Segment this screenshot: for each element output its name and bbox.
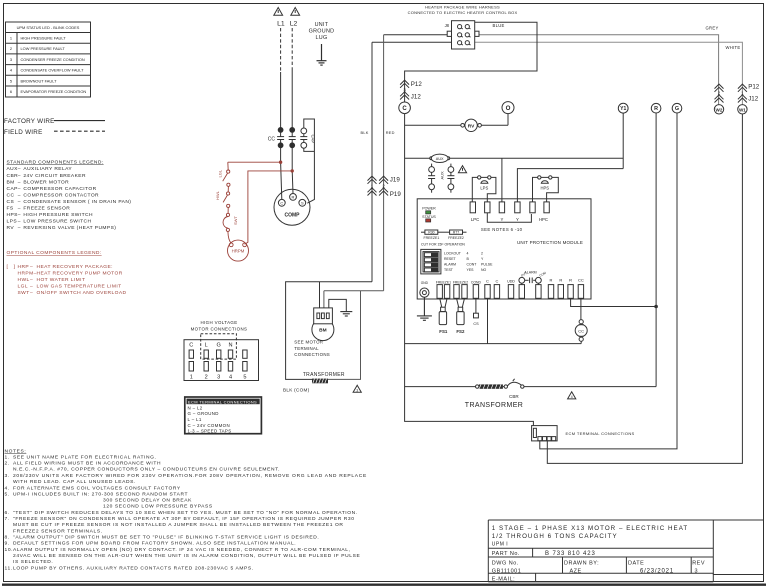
svg-text:CONT: CONT xyxy=(467,263,478,267)
svg-text:N – L2: N – L2 xyxy=(188,405,203,410)
UPM module box xyxy=(417,199,591,299)
UPM terminal HPC in xyxy=(530,202,535,213)
svg-text:6/23/2021: 6/23/2021 xyxy=(640,568,674,574)
svg-text:AUX: AUX xyxy=(440,171,445,180)
label HIGH VOLTAGE MOTOR CONNECTIONS xyxy=(191,320,248,331)
pressure switch HPS xyxy=(533,176,559,202)
svg-text:STANDARD COMPONENTS LEGEND:: STANDARD COMPONENTS LEGEND: xyxy=(7,159,104,165)
title block xyxy=(488,520,763,582)
svg-text:2: 2 xyxy=(481,252,483,256)
svg-text:CONDENSER FREEZE CONDITION: CONDENSER FREEZE CONDITION xyxy=(21,57,85,62)
wire Y branch to UPM Y in xyxy=(501,158,503,202)
warning triangle at L2 xyxy=(291,8,300,16)
svg-text:HPS: HPS xyxy=(7,212,19,218)
wire CAP lower stub xyxy=(304,148,315,151)
UPM bottom terminals row xyxy=(437,285,584,299)
svg-text:C: C xyxy=(402,106,407,112)
svg-text:L1: L1 xyxy=(277,21,285,28)
svg-text:–: – xyxy=(30,284,33,289)
svg-text:R: R xyxy=(550,277,553,282)
svg-text:1.: 1. xyxy=(5,454,10,460)
svg-text:ECM TERMINAL CONNECTIONS: ECM TERMINAL CONNECTIONS xyxy=(188,399,257,404)
connector BM plug xyxy=(314,308,333,324)
svg-text:TERMINAL: TERMINAL xyxy=(294,346,319,351)
svg-text:AUX: AUX xyxy=(436,157,444,161)
svg-text:FREEZE SENSOR: FREEZE SENSOR xyxy=(23,205,70,211)
svg-text:RED: RED xyxy=(386,130,395,135)
svg-text:HPC: HPC xyxy=(539,217,548,222)
svg-text:N: N xyxy=(228,342,232,348)
svg-text:Y: Y xyxy=(516,217,519,222)
UPM terminal Y in xyxy=(499,202,504,213)
svg-text:R: R xyxy=(292,195,295,200)
terminal O xyxy=(502,102,514,114)
svg-text:HEATER PACKAGE WIRE HARNESS: HEATER PACKAGE WIRE HARNESS xyxy=(425,4,500,9)
svg-text:–: – xyxy=(18,167,21,172)
junction node R xyxy=(654,305,658,309)
title text xyxy=(492,525,705,583)
svg-text:3: 3 xyxy=(695,568,699,574)
svg-text:–: – xyxy=(18,213,21,218)
wire UPM C to 24V common xyxy=(487,298,489,343)
terminal C xyxy=(399,102,411,114)
svg-text:REV: REV xyxy=(692,560,705,566)
svg-text:BLUE: BLUE xyxy=(493,23,505,28)
ground at UPM GND xyxy=(417,297,432,320)
svg-text:2: 2 xyxy=(10,46,12,51)
svg-text:CS: CS xyxy=(7,199,15,205)
svg-text:W2: W2 xyxy=(716,107,723,112)
alarm contact ALARM OUT/COM xyxy=(519,271,547,285)
svg-text:3: 3 xyxy=(356,388,358,392)
svg-text:–: – xyxy=(18,226,21,231)
ground (unit ground lug) xyxy=(317,44,327,65)
svg-text:CS: CS xyxy=(473,322,479,326)
wire BLK to transformer primary xyxy=(286,282,372,380)
standard components legend text xyxy=(7,159,132,231)
terminal W1 xyxy=(738,105,747,114)
terminal W2 xyxy=(714,105,723,114)
svg-text:TRANSFORMER: TRANSFORMER xyxy=(465,402,523,409)
wire GREY J8 to W2 xyxy=(479,35,719,105)
svg-text:REVERSING VALVE (HEAT PUMPS): REVERSING VALVE (HEAT PUMPS) xyxy=(23,225,116,231)
ECM terminal connections table xyxy=(185,397,262,434)
svg-text:PULSE: PULSE xyxy=(481,263,493,267)
svg-text:DWG No.: DWG No. xyxy=(492,560,519,566)
switch LGL (red) xyxy=(223,162,230,186)
wire BM feed BLK xyxy=(319,282,321,308)
wire BLUE J8 to terminal C xyxy=(405,22,537,102)
svg-text:BROWNOUT FAULT: BROWNOUT FAULT xyxy=(21,78,58,83)
svg-text:CONDENSATE OVERFLOW FAULT: CONDENSATE OVERFLOW FAULT xyxy=(21,68,85,73)
svg-text:LOW PRESSURE SWITCH: LOW PRESSURE SWITCH xyxy=(23,218,91,224)
wire CC pole2 to COMP R xyxy=(291,148,294,194)
svg-text:B 733 810 423: B 733 810 423 xyxy=(545,551,596,557)
svg-text:OPTIONAL COMPONENTS LEGEND:: OPTIONAL COMPONENTS LEGEND: xyxy=(7,250,102,256)
svg-text:MUST BE CUT IF FREEZE SENSOR I: MUST BE CUT IF FREEZE SENSOR IS NOT INST… xyxy=(13,522,344,528)
svg-text:CUT FOR 15F OPERATION: CUT FOR 15F OPERATION xyxy=(421,242,465,246)
svg-text:C: C xyxy=(280,201,283,206)
svg-text:6.: 6. xyxy=(5,510,10,516)
svg-text:GND: GND xyxy=(421,281,429,285)
svg-text:HRPM: HRPM xyxy=(232,249,245,254)
connector P12/J12 chevrons at C xyxy=(400,80,409,99)
svg-text:–: – xyxy=(18,200,21,205)
svg-text:WITH RED LEAD. CAP ALL UNUSED: WITH RED LEAD. CAP ALL UNUSED LEADS. xyxy=(13,479,136,485)
label SEE MOTOR TERMINAL CONNECTIONS xyxy=(294,340,330,357)
svg-text:SEE MOTOR: SEE MOTOR xyxy=(294,340,323,345)
relay coil AUX xyxy=(430,154,450,162)
svg-text:NO: NO xyxy=(481,268,487,272)
svg-text:RV: RV xyxy=(468,123,475,129)
wire C vertical main xyxy=(405,114,534,426)
svg-text:SEE UNIT NAME PLATE FOR ELECTR: SEE UNIT NAME PLATE FOR ELECTRICAL RATIN… xyxy=(13,454,157,460)
wire O drop xyxy=(507,114,509,126)
wire W1 vertical to ECM xyxy=(547,114,742,463)
svg-text:FS1: FS1 xyxy=(439,329,448,334)
DIP labels xyxy=(444,252,493,273)
svg-text:BLK: BLK xyxy=(361,130,369,135)
svg-text:24VAC WILL BE SENSED ON THE AL: 24VAC WILL BE SENSED ON THE ALR-OUT WHEN… xyxy=(13,553,360,559)
svg-text:DATE: DATE xyxy=(628,560,644,566)
UPM bottom terminal labels xyxy=(436,277,584,284)
svg-text:UNIT PROTECTION MODULE: UNIT PROTECTION MODULE xyxy=(517,240,583,245)
svg-text:BLOWER MOTOR: BLOWER MOTOR xyxy=(23,179,69,185)
svg-text:–: – xyxy=(18,219,21,224)
svg-text:J8: J8 xyxy=(445,23,450,28)
wire RED to J8 xyxy=(384,34,452,36)
svg-text:CBR: CBR xyxy=(7,173,19,179)
svg-text:EVAPORATOR FREEZE CONDITION: EVAPORATOR FREEZE CONDITION xyxy=(21,89,87,94)
warning triangle near AUX xyxy=(458,166,466,173)
svg-text:STATUS: STATUS xyxy=(422,215,436,219)
svg-text:GB111001: GB111001 xyxy=(492,568,521,574)
svg-text:CBR: CBR xyxy=(509,394,519,399)
svg-text:UNIT: UNIT xyxy=(315,22,329,28)
svg-text:–: – xyxy=(18,187,21,192)
svg-text:8.: 8. xyxy=(5,535,10,541)
svg-text:5: 5 xyxy=(10,78,12,83)
transformer primary coil xyxy=(312,379,328,384)
svg-text:FIELD WIRE: FIELD WIRE xyxy=(4,129,43,136)
connector chevrons at W1 xyxy=(738,84,747,102)
svg-text:300 SECOND DELAY ON BREAK: 300 SECOND DELAY ON BREAK xyxy=(103,498,192,504)
svg-text:R77: R77 xyxy=(453,231,459,235)
compressor COMP xyxy=(274,189,310,225)
svg-text:ALARM OUTPUT IS NORMALLY OPEN: ALARM OUTPUT IS NORMALLY OPEN (NO) DRY C… xyxy=(13,547,351,553)
svg-text:FOR ALTERNATE EMS COIL VOLTAGE: FOR ALTERNATE EMS COIL VOLTAGES CONSULT … xyxy=(13,485,181,491)
svg-text:P19: P19 xyxy=(390,191,402,198)
svg-text:1/2 THROUGH 6 TONS CAPACITY: 1/2 THROUGH 6 TONS CAPACITY xyxy=(492,533,618,540)
warning triangle 3 near transformer xyxy=(353,385,361,392)
switch SWT overload (red) xyxy=(223,208,231,244)
svg-text:TEST: TEST xyxy=(444,268,454,272)
svg-text:BLK (COM): BLK (COM) xyxy=(283,388,310,393)
UPM terminal LPC out xyxy=(485,202,490,213)
DIP switch block xyxy=(421,249,441,274)
svg-text:YES: YES xyxy=(467,268,475,272)
svg-text:1-3 – SPEED TAPS: 1-3 – SPEED TAPS xyxy=(188,428,232,433)
svg-text:PART No.: PART No. xyxy=(492,551,520,557)
svg-text:5.: 5. xyxy=(5,491,10,497)
svg-text:ALARM: ALARM xyxy=(444,263,456,267)
svg-text:J12: J12 xyxy=(411,93,422,100)
wire Y1 to UPM Y xyxy=(517,169,623,202)
svg-text:120 SECOND LOW PRESSURE BYPASS: 120 SECOND LOW PRESSURE BYPASS xyxy=(103,504,213,510)
svg-text:–: – xyxy=(18,180,21,185)
resistor R30 FREEZE1 xyxy=(421,231,425,233)
ground at BM xyxy=(340,312,352,316)
svg-text:TRANSFORMER: TRANSFORMER xyxy=(303,372,345,378)
heater package harness note xyxy=(408,4,518,15)
svg-text:ON/OFF SWITCH AND OVERLOAD: ON/OFF SWITCH AND OVERLOAD xyxy=(37,290,127,296)
wire (red) pole1 to LGL chain xyxy=(228,161,281,163)
relay contacts AUX pair 1 xyxy=(428,164,435,193)
svg-text:LPC: LPC xyxy=(471,217,479,222)
unit ground lug label xyxy=(309,22,335,41)
wire CBR row R to transformer xyxy=(405,386,476,388)
svg-text:COMP: COMP xyxy=(285,213,301,219)
svg-text:LUG: LUG xyxy=(316,35,328,41)
svg-text:LGL: LGL xyxy=(218,169,223,177)
svg-text:R: R xyxy=(654,106,658,112)
svg-text:LGL: LGL xyxy=(18,283,29,289)
wire BLK to J8 xyxy=(372,41,452,43)
svg-text:LOCKOUT: LOCKOUT xyxy=(444,252,462,256)
connector ECM xyxy=(532,426,558,441)
svg-text:FREEZE2: FREEZE2 xyxy=(453,280,468,284)
reversing valve RV xyxy=(461,119,482,131)
high voltage motor connector table xyxy=(184,334,259,381)
svg-text:–: – xyxy=(30,291,33,296)
wire AUX row to Y1 xyxy=(405,157,430,159)
svg-text:WHITE: WHITE xyxy=(726,45,741,50)
svg-text:7.: 7. xyxy=(5,516,10,522)
svg-text:UPM-I INCLUDES BUILT IN: 270-3: UPM-I INCLUDES BUILT IN: 270-300 SECOND … xyxy=(13,491,188,497)
svg-text:P12: P12 xyxy=(411,81,423,88)
svg-text:RESET: RESET xyxy=(444,257,457,261)
svg-text:UDD: UDD xyxy=(507,280,515,284)
legend factory wire xyxy=(4,118,105,136)
svg-text:HRPM–: HRPM– xyxy=(18,271,37,277)
svg-text:Y: Y xyxy=(500,217,503,222)
svg-text:HOT WATER LIMIT: HOT WATER LIMIT xyxy=(37,277,86,283)
wire UPM R to R bus xyxy=(571,298,657,306)
circuit breaker CBR xyxy=(479,379,524,399)
svg-text:4: 4 xyxy=(467,252,469,256)
svg-text:FS: FS xyxy=(7,205,14,211)
contactor CC pole 1 xyxy=(277,127,284,147)
svg-text:J19: J19 xyxy=(390,176,401,183)
svg-text:–: – xyxy=(18,193,21,198)
svg-text:CC: CC xyxy=(578,328,584,333)
connector chevrons at W2 xyxy=(715,84,724,102)
svg-text:SWT: SWT xyxy=(233,216,238,225)
svg-text:L – L1: L – L1 xyxy=(188,417,202,422)
svg-text:C – 24V COMMON: C – 24V COMMON xyxy=(188,423,230,428)
svg-text:LOOP PUMP BY OTHERS. AUXILIARY: LOOP PUMP BY OTHERS. AUXILIARY RATED CON… xyxy=(13,565,254,571)
terminal Y1 xyxy=(618,103,628,113)
wire G vertical to ECM xyxy=(540,113,677,449)
svg-text:UPM I: UPM I xyxy=(492,542,508,548)
blower motor BM xyxy=(312,319,334,341)
svg-text:HIGH PRESSURE FAULT: HIGH PRESSURE FAULT xyxy=(21,36,67,41)
contactor coil CC xyxy=(575,298,587,343)
svg-text:GREY: GREY xyxy=(706,25,719,30)
wire Y1 drop xyxy=(622,113,624,169)
table UPM STATUS LED BLINK CODES xyxy=(6,22,91,97)
wire CC pole1 to COMP C xyxy=(281,148,282,200)
svg-text:GROUND: GROUND xyxy=(309,29,335,35)
svg-text:208/230V UNITS ARE FACTORY WIR: 208/230V UNITS ARE FACTORY WIRED FOR 230… xyxy=(13,473,367,479)
svg-text:SWT: SWT xyxy=(18,290,30,296)
svg-text:"ALARM OUTPUT" DIP SWITCH MUST: "ALARM OUTPUT" DIP SWITCH MUST BE SET TO… xyxy=(13,535,319,541)
wire WHITE J8 to W1 xyxy=(475,42,743,104)
svg-text:ALL FIELD WIRING MUST BE IN AC: ALL FIELD WIRING MUST BE IN ACCORDANCE W… xyxy=(13,461,161,467)
svg-text:R30: R30 xyxy=(428,231,434,235)
svg-text:C: C xyxy=(189,342,193,348)
svg-text:3: 3 xyxy=(10,57,12,62)
svg-text:O: O xyxy=(506,105,511,112)
svg-text:R: R xyxy=(559,277,562,282)
svg-text:N.E.C.-N.F.P.A. #70, COPPER CO: N.E.C.-N.F.P.A. #70, COPPER CONDUCTORS O… xyxy=(13,467,280,473)
svg-text:24V CIRCUIT BREAKER: 24V CIRCUIT BREAKER xyxy=(23,173,86,179)
svg-text:COMPRESSOR CAPACITOR: COMPRESSOR CAPACITOR xyxy=(23,186,96,192)
svg-text:3: 3 xyxy=(217,374,220,380)
svg-text:BM: BM xyxy=(7,179,15,185)
svg-text:FREEZE1: FREEZE1 xyxy=(424,236,440,240)
wire L1 field (dashed) xyxy=(280,28,282,72)
pressure switch LPS xyxy=(472,176,496,202)
svg-text:HIGH PRESSURE SWITCH: HIGH PRESSURE SWITCH xyxy=(23,212,93,218)
svg-text:W1: W1 xyxy=(739,107,746,112)
svg-text:UPM STATUS LED - BLINK CODES: UPM STATUS LED - BLINK CODES xyxy=(17,25,80,30)
svg-text:3.: 3. xyxy=(5,473,10,479)
svg-text:IS SELECTED.: IS SELECTED. xyxy=(13,559,53,565)
labels LPC Y Y HPC xyxy=(471,217,548,222)
svg-text:AUXILIARY RELAY: AUXILIARY RELAY xyxy=(23,166,72,172)
svg-text:DRAWN BY:: DRAWN BY: xyxy=(564,560,599,566)
svg-text:Y1: Y1 xyxy=(620,106,626,112)
svg-text:MOTOR CONNECTIONS: MOTOR CONNECTIONS xyxy=(191,326,248,331)
svg-text:HRP: HRP xyxy=(18,264,30,270)
capacitor CAP xyxy=(300,128,307,148)
notes text block xyxy=(5,448,367,571)
svg-text:1: 1 xyxy=(190,374,193,380)
wire RV row xyxy=(405,124,461,126)
contactor CC pole 2 xyxy=(289,127,296,147)
junction dot (red) at pole1 xyxy=(279,161,282,164)
svg-text:LOW PRESSURE FAULT: LOW PRESSURE FAULT xyxy=(21,46,66,51)
svg-text:FS2: FS2 xyxy=(456,329,465,334)
svg-text:HEAT RECOVERY PUMP MOTOR: HEAT RECOVERY PUMP MOTOR xyxy=(37,271,123,277)
svg-text:LPS: LPS xyxy=(7,218,18,224)
svg-text:[ ]: [ ] xyxy=(7,264,16,270)
svg-text:C: C xyxy=(495,279,498,284)
svg-text:4.: 4. xyxy=(5,485,10,491)
svg-text:G: G xyxy=(675,106,679,112)
svg-text:CONNECTED TO ELECTRIC HEATER C: CONNECTED TO ELECTRIC HEATER CONTROL BOX xyxy=(408,10,518,15)
svg-text:R: R xyxy=(569,277,572,282)
svg-text:–: – xyxy=(18,174,21,179)
freeze sensor FS1 xyxy=(439,298,448,334)
svg-text:P12: P12 xyxy=(748,84,760,91)
svg-text:E-MAIL:: E-MAIL: xyxy=(492,576,515,582)
svg-text:SEE NOTES 6 -10: SEE NOTES 6 -10 xyxy=(481,227,523,232)
svg-text:G – GROUND: G – GROUND xyxy=(188,411,219,416)
svg-text:"FREEZE SENSOR" ON CONDENSER W: "FREEZE SENSOR" ON CONDENSER WILL OPERAT… xyxy=(13,516,355,522)
relay contacts AUX pair 2 xyxy=(447,164,454,193)
junction dot (red) at pole2 xyxy=(291,169,294,172)
svg-text:LOW GAS TEMPERATURE LIMIT: LOW GAS TEMPERATURE LIMIT xyxy=(37,283,122,289)
connector J19/P19 chevrons BLK xyxy=(368,176,377,195)
svg-text:1 STAGE – 1 PHASE X13 MOTOR –: 1 STAGE – 1 PHASE X13 MOTOR – ELECTRIC H… xyxy=(492,525,688,532)
wire RED vertical xyxy=(383,35,385,291)
wire 24V common C net xyxy=(405,343,582,345)
wire L1 factory xyxy=(280,72,282,128)
svg-text:CONDENSATE SENSOR ( IN DRAIN P: CONDENSATE SENSOR ( IN DRAIN PAN) xyxy=(23,199,131,205)
svg-text:2.: 2. xyxy=(5,461,10,467)
svg-text:4: 4 xyxy=(571,395,573,399)
svg-text:2: 2 xyxy=(205,374,208,380)
svg-text:6: 6 xyxy=(10,89,12,94)
svg-text:COND: COND xyxy=(471,280,482,284)
wire L2 factory xyxy=(291,69,293,128)
svg-text:CC: CC xyxy=(7,192,15,198)
svg-text:COMPRESSOR CONTACTOR: COMPRESSOR CONTACTOR xyxy=(23,192,99,198)
svg-text:CAP: CAP xyxy=(7,186,18,192)
svg-text:1: 1 xyxy=(10,36,12,41)
wire CAP to COMP S xyxy=(304,119,315,203)
svg-text:LPS: LPS xyxy=(480,186,488,191)
svg-text:HWL: HWL xyxy=(18,277,30,283)
switch HWL (red) xyxy=(223,186,230,207)
wire L2 field (dashed) xyxy=(291,28,293,69)
svg-text:FREEZE1: FREEZE1 xyxy=(436,280,451,284)
condensate sensor CS xyxy=(473,298,479,326)
freeze sensor FS2 xyxy=(456,298,465,334)
wire LPC out to HPC in xyxy=(487,213,531,223)
resistor R77 FREEZE2 xyxy=(438,231,450,233)
svg-text:4: 4 xyxy=(229,374,232,380)
svg-text:–: – xyxy=(30,265,33,270)
svg-text:10.: 10. xyxy=(5,547,14,553)
connector J8 xyxy=(445,21,479,49)
UPM terminal Y out xyxy=(515,202,520,213)
svg-text:BM: BM xyxy=(319,328,326,334)
wire R vertical xyxy=(655,113,657,387)
svg-text:11.: 11. xyxy=(5,565,13,571)
svg-text:C: C xyxy=(486,279,489,284)
UPM terminal LPC in xyxy=(470,202,475,213)
wire BM feed RED xyxy=(323,291,325,308)
svg-text:G: G xyxy=(217,342,221,348)
terminal G xyxy=(672,103,682,113)
svg-text:HEAT RECOVERY PACKAGE:: HEAT RECOVERY PACKAGE: xyxy=(37,264,113,270)
terminal R xyxy=(651,103,661,113)
svg-text:CONNECTIONS: CONNECTIONS xyxy=(294,352,330,357)
svg-text:–: – xyxy=(30,278,33,283)
svg-text:FACTORY WIRE: FACTORY WIRE xyxy=(4,118,55,125)
wire (red) pole2 to HRPM xyxy=(245,171,293,244)
motor HRPM (red) xyxy=(228,240,249,261)
svg-text:J12: J12 xyxy=(748,96,759,103)
svg-text:ECM TERMINAL CONNECTIONS: ECM TERMINAL CONNECTIONS xyxy=(566,431,635,436)
svg-text:NOTES:: NOTES: xyxy=(5,448,27,454)
wire BM ground branch xyxy=(329,299,347,311)
svg-text:CC: CC xyxy=(268,136,276,142)
svg-text:CC: CC xyxy=(578,277,584,282)
